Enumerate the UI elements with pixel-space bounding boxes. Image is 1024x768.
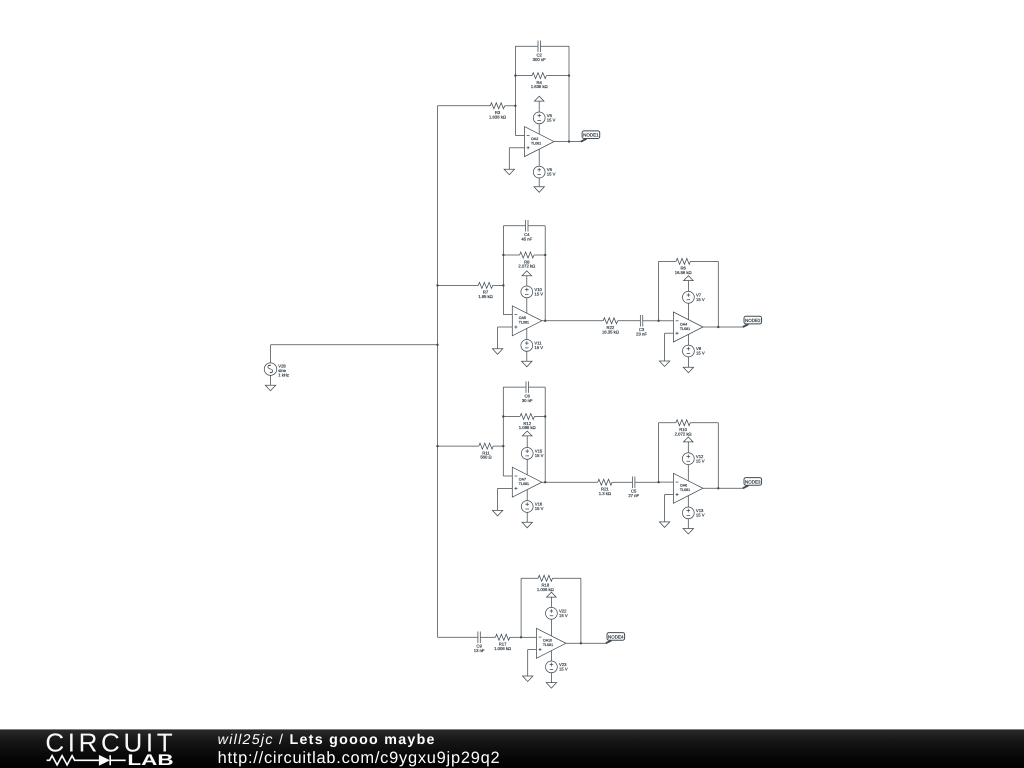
svg-text:15 V: 15 V bbox=[696, 297, 705, 302]
svg-text:R12: R12 bbox=[523, 421, 531, 426]
svg-text:R17: R17 bbox=[499, 642, 507, 647]
svg-text:TL081: TL081 bbox=[680, 488, 690, 492]
svg-text:V28: V28 bbox=[278, 364, 285, 369]
svg-text:15 V: 15 V bbox=[696, 351, 705, 356]
svg-text:TL081: TL081 bbox=[531, 141, 541, 145]
svg-text:V23: V23 bbox=[559, 662, 566, 667]
svg-text:1.086 kΩ: 1.086 kΩ bbox=[519, 425, 536, 430]
svg-text:R11: R11 bbox=[482, 451, 489, 456]
svg-text:R22: R22 bbox=[607, 325, 615, 330]
svg-text:15 V: 15 V bbox=[534, 292, 543, 297]
svg-text:2.072 kΩ: 2.072 kΩ bbox=[675, 432, 692, 437]
svg-text:V11: V11 bbox=[534, 341, 541, 346]
svg-text:1.65 kΩ: 1.65 kΩ bbox=[478, 294, 493, 299]
svg-text:R18: R18 bbox=[541, 583, 549, 588]
svg-text:http://circuitlab.com/c9ygxu9j: http://circuitlab.com/c9ygxu9jp29q2 bbox=[218, 748, 501, 766]
svg-text:15 V: 15 V bbox=[535, 506, 544, 511]
svg-text:V7: V7 bbox=[696, 293, 701, 298]
svg-text:NODE1: NODE1 bbox=[583, 133, 599, 138]
svg-text:16.35 kΩ: 16.35 kΩ bbox=[602, 330, 619, 335]
svg-text:OA2: OA2 bbox=[531, 137, 538, 141]
svg-text:TL081: TL081 bbox=[680, 327, 690, 331]
svg-text:NODE4: NODE4 bbox=[608, 634, 624, 639]
svg-text:13 nF: 13 nF bbox=[474, 648, 485, 653]
svg-text:R4: R4 bbox=[537, 80, 542, 85]
svg-text:NODE3: NODE3 bbox=[745, 479, 761, 484]
svg-text:V16: V16 bbox=[535, 502, 542, 507]
svg-text:sine: sine bbox=[278, 368, 286, 373]
svg-text:NODE2: NODE2 bbox=[745, 318, 761, 323]
svg-text:23 nF: 23 nF bbox=[636, 332, 647, 337]
svg-text:27 nF: 27 nF bbox=[628, 493, 639, 498]
svg-text:R3: R3 bbox=[495, 110, 500, 115]
svg-text:V15: V15 bbox=[535, 449, 542, 454]
svg-text:R8: R8 bbox=[524, 260, 529, 265]
svg-text:15 V: 15 V bbox=[559, 667, 568, 672]
svg-text:R6: R6 bbox=[681, 266, 686, 271]
svg-text:300 nF: 300 nF bbox=[533, 57, 546, 62]
svg-text:LAB: LAB bbox=[127, 751, 173, 768]
svg-text:OA4: OA4 bbox=[680, 322, 687, 326]
svg-text:C9: C9 bbox=[476, 644, 481, 649]
svg-text:V5: V5 bbox=[547, 113, 552, 118]
svg-text:V13: V13 bbox=[696, 508, 703, 513]
svg-text:OA5: OA5 bbox=[519, 316, 526, 320]
svg-text:15 V: 15 V bbox=[534, 345, 543, 350]
svg-text:C6: C6 bbox=[525, 394, 530, 399]
svg-text:1.636 kΩ: 1.636 kΩ bbox=[489, 115, 506, 120]
svg-text:560 Ω: 560 Ω bbox=[480, 455, 491, 460]
svg-text:15 V: 15 V bbox=[535, 453, 544, 458]
svg-text:V8: V8 bbox=[696, 346, 701, 351]
svg-text:OA10: OA10 bbox=[543, 638, 552, 642]
svg-text:V12: V12 bbox=[696, 454, 703, 459]
svg-text:16.56 kΩ: 16.56 kΩ bbox=[675, 270, 692, 275]
svg-text:15 V: 15 V bbox=[696, 513, 705, 518]
svg-text:C3: C3 bbox=[639, 327, 644, 332]
svg-text:45 nF: 45 nF bbox=[521, 237, 532, 242]
svg-text:15 V: 15 V bbox=[547, 118, 556, 123]
svg-text:15 V: 15 V bbox=[559, 613, 568, 618]
svg-text:1.006 kΩ: 1.006 kΩ bbox=[537, 587, 554, 592]
svg-text:V6: V6 bbox=[547, 167, 552, 172]
svg-text:OA6: OA6 bbox=[680, 483, 687, 487]
svg-text:1 kHz: 1 kHz bbox=[278, 373, 289, 378]
svg-text:1.006 kΩ: 1.006 kΩ bbox=[494, 646, 511, 651]
svg-text:OA7: OA7 bbox=[519, 477, 526, 481]
svg-text:R10: R10 bbox=[679, 427, 687, 432]
svg-text:TL081: TL081 bbox=[543, 643, 553, 647]
svg-text:R21: R21 bbox=[601, 487, 609, 492]
svg-text:V22: V22 bbox=[559, 609, 566, 614]
svg-text:C5: C5 bbox=[631, 489, 636, 494]
svg-text:TL081: TL081 bbox=[519, 320, 529, 324]
svg-text:1.636 kΩ: 1.636 kΩ bbox=[531, 84, 548, 89]
svg-text:will25jc / Lets goooo maybe: will25jc / Lets goooo maybe bbox=[218, 731, 436, 747]
svg-text:30 nF: 30 nF bbox=[522, 398, 533, 403]
svg-text:2.072 kΩ: 2.072 kΩ bbox=[518, 264, 535, 269]
svg-text:TL081: TL081 bbox=[519, 482, 529, 486]
svg-text:V10: V10 bbox=[534, 287, 541, 292]
svg-text:R7: R7 bbox=[483, 290, 488, 295]
svg-text:C4: C4 bbox=[524, 232, 529, 237]
svg-text:15 V: 15 V bbox=[547, 172, 556, 177]
svg-text:15 V: 15 V bbox=[696, 459, 705, 464]
svg-text:1.3 kΩ: 1.3 kΩ bbox=[599, 491, 611, 496]
svg-text:C2: C2 bbox=[537, 53, 542, 58]
